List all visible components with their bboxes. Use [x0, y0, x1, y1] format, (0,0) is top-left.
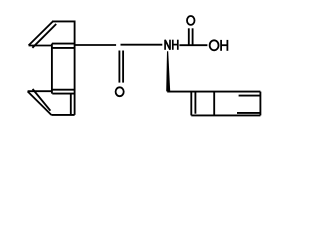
left ring, bottom edge	[51, 114, 74, 116]
bond NH to carboxyl carbon, continues to OH	[179, 44, 207, 46]
label O (amide carbonyl oxygen)	[116, 87, 124, 96]
left benzene ring, top edge	[52, 20, 75, 22]
bond CH2 to right benzene ring / ring top edge	[167, 91, 260, 93]
bond from left ring vertex A1 to ring (chain stub)	[29, 45, 53, 47]
chain bond: left ring to amide carbon	[75, 44, 117, 46]
right ring, left vertical edge	[190, 92, 192, 116]
amide C=O double bond, left line	[118, 51, 120, 83]
right ring, inner double line below top edge	[239, 95, 260, 97]
amide C=O double bond, right line	[122, 51, 124, 83]
right ring, inner double line above bottom edge	[237, 112, 260, 114]
left ring, lower line of bottom double-bond pair	[52, 93, 74, 95]
label O of OH	[210, 40, 219, 50]
chain bond: amide carbon to NH	[121, 44, 163, 46]
label O (carboxyl carbonyl oxygen)	[187, 16, 195, 25]
left ring, inner double line of bottom-left diagonal	[33, 89, 51, 111]
left ring, bond from vertex A2 (horizontal)	[28, 90, 53, 92]
left benzene ring, top-left diagonal bond	[29, 21, 53, 45]
right ring, right vertical edge	[259, 92, 261, 116]
left ring, lower line of top double-bond pair	[52, 47, 74, 49]
label H of NH	[173, 40, 178, 50]
stereo wedge bond from NH down to CH2	[166, 51, 170, 91]
left ring, bottom-left diagonal bond	[28, 91, 52, 115]
right ring, bottom edge	[191, 114, 260, 116]
left ring, upper line of bottom double-bond pair	[52, 89, 75, 91]
left ring, inner vertical double line (bottom right)	[70, 94, 72, 115]
right ring, inner double line of left edge	[194, 92, 196, 114]
left ring, upper line of top double-bond pair	[52, 43, 75, 45]
label N of NH	[165, 40, 170, 50]
carboxyl C=O double bond, left line	[188, 28, 190, 45]
label H of OH	[221, 40, 227, 51]
left benzene ring, right vertical edge	[74, 21, 76, 115]
left ring, left vertical edge	[51, 44, 53, 94]
carboxyl C=O double bond, right line	[192, 28, 194, 45]
left benzene ring, inner double line of top-left diagonal	[32, 24, 56, 48]
right ring, middle vertical bond	[213, 92, 215, 116]
